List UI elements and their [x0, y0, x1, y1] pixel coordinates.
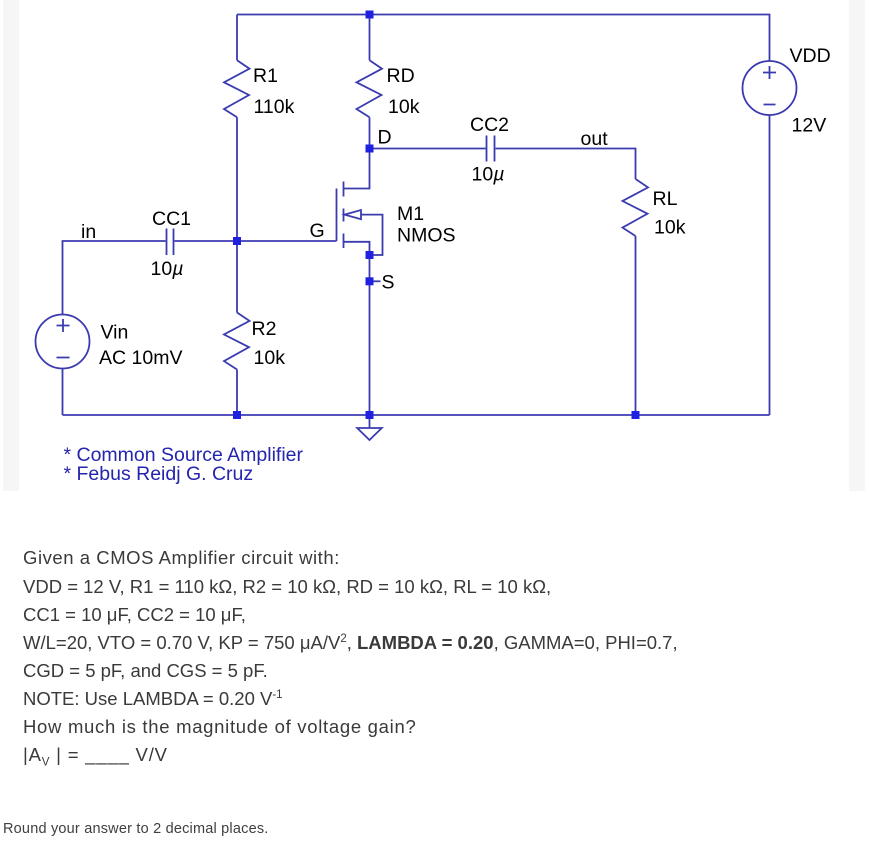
- svg-text:RL: RL: [653, 188, 678, 210]
- svg-text:in: in: [81, 221, 96, 243]
- svg-text:CC1: CC1: [152, 208, 191, 230]
- svg-text:10k: 10k: [388, 96, 420, 118]
- svg-text:AC 10mV: AC 10mV: [99, 347, 182, 369]
- svg-text:NMOS: NMOS: [397, 225, 456, 247]
- svg-text:R1: R1: [253, 65, 278, 87]
- svg-text:G: G: [310, 220, 325, 242]
- svg-text:out: out: [581, 128, 609, 150]
- svg-text:CC2: CC2: [470, 114, 509, 136]
- svg-text:M1: M1: [397, 203, 424, 225]
- svg-text:10µ: 10µ: [151, 258, 184, 280]
- svg-text:10k: 10k: [254, 347, 286, 369]
- svg-text:D: D: [378, 127, 392, 149]
- svg-text:10k: 10k: [654, 217, 686, 239]
- svg-text:110k: 110k: [254, 96, 295, 118]
- svg-text:* Febus Reidj G. Cruz: * Febus Reidj G. Cruz: [64, 463, 254, 485]
- svg-text:10µ: 10µ: [472, 164, 505, 186]
- svg-text:Vin: Vin: [101, 321, 129, 343]
- svg-text:VDD: VDD: [790, 45, 831, 67]
- svg-text:12V: 12V: [792, 114, 827, 136]
- svg-text:R2: R2: [252, 318, 277, 340]
- svg-text:RD: RD: [387, 65, 415, 87]
- svg-text:S: S: [382, 272, 395, 294]
